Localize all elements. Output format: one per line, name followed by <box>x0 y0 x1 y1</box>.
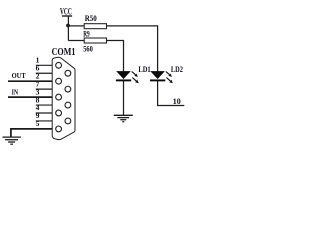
svg-text:COM1: COM1 <box>52 47 76 58</box>
svg-text:5: 5 <box>36 119 40 128</box>
svg-text:OUT: OUT <box>12 71 27 80</box>
svg-text:R50: R50 <box>85 14 97 23</box>
svg-text:IN: IN <box>12 88 19 97</box>
svg-text:R9: R9 <box>83 30 90 39</box>
svg-text:LD1: LD1 <box>138 65 150 74</box>
svg-text:LD2: LD2 <box>171 65 183 74</box>
svg-text:10: 10 <box>173 97 181 106</box>
svg-text:VCC: VCC <box>60 7 72 17</box>
svg-text:560: 560 <box>83 45 93 54</box>
